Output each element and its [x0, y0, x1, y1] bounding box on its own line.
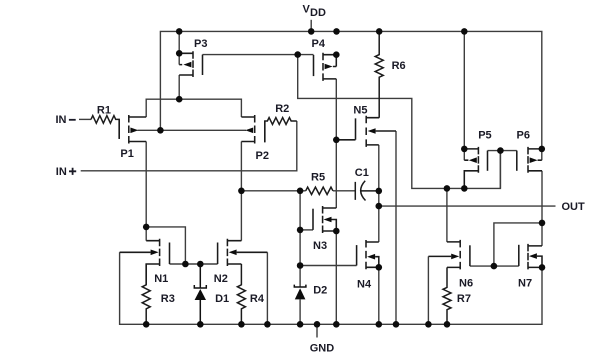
- junction dots top rail: [176, 28, 183, 35]
- transistor N2: [218, 239, 268, 266]
- junction dot N5 gate: [333, 137, 340, 144]
- wire IN+ to R2: [81, 121, 297, 171]
- diode D2 triangle: [295, 288, 306, 299]
- wire N4 source column: [378, 267, 380, 324]
- bulk arrow N1: [151, 250, 159, 256]
- wire P5 P6 gate link: [488, 150, 517, 152]
- svg-text:IN: IN: [56, 114, 67, 126]
- svg-text:GND: GND: [310, 343, 335, 354]
- svg-text:D2: D2: [313, 285, 327, 297]
- junction dot N6 N7 gate bus: [491, 263, 498, 270]
- wire P3 P4 gate line: [203, 54, 314, 56]
- bulk arrow P2: [245, 128, 253, 134]
- svg-text:R3: R3: [161, 293, 175, 305]
- transistor P5: [464, 147, 487, 189]
- transistor N3: [313, 206, 336, 233]
- wire P3 drain drop: [178, 75, 180, 99]
- wire N1 diode loop: [146, 227, 185, 264]
- transistor N7: [519, 244, 542, 270]
- junction dot P6 source: [539, 146, 546, 153]
- wire OUT line: [379, 205, 556, 207]
- transistor P2: [241, 115, 264, 144]
- bulk arrow P1: [130, 128, 138, 134]
- wire R5 line: [241, 190, 355, 192]
- transistor P6: [517, 147, 542, 173]
- resistor R3: [142, 264, 150, 324]
- svg-text:DD: DD: [310, 7, 326, 19]
- capacitor C1: [355, 181, 379, 201]
- junction dot N1 gate: [182, 261, 189, 268]
- transistor P1: [119, 115, 146, 144]
- label IN- minus sign: [69, 119, 76, 121]
- junction dot P5 drain bias: [461, 185, 468, 192]
- resistor R1: [91, 116, 119, 139]
- wire IN- lead: [79, 118, 91, 120]
- wire gate bias bus to P5 P6: [298, 55, 501, 189]
- wire P4 drain to N3 drain: [335, 79, 337, 208]
- wire P1 P2 source line: [146, 99, 241, 117]
- wire VDD rail: [160, 31, 541, 160]
- bulk arrow N2: [229, 250, 237, 256]
- bulk arrow P3: [183, 62, 191, 68]
- bulk arrow P4: [325, 64, 333, 70]
- junction dot N7 source: [539, 264, 546, 271]
- junction dots GND rail: [143, 321, 150, 328]
- svg-text:R1: R1: [97, 104, 111, 116]
- transistor N5: [336, 116, 396, 147]
- wire N6 bulk drop: [427, 256, 429, 324]
- wire N5 bulk drop: [395, 131, 397, 324]
- resistor R5: [306, 187, 333, 194]
- svg-text:P1: P1: [120, 148, 133, 160]
- svg-text:P6: P6: [517, 129, 530, 141]
- label IN+ plus sign: [69, 168, 76, 175]
- transistor P3: [179, 51, 202, 77]
- junction dot D1 top: [197, 261, 204, 268]
- bulk arrow N3: [324, 217, 332, 223]
- bulk arrow N6: [451, 254, 459, 260]
- junction dot tail node: [176, 96, 183, 103]
- junction dot P5 P6 gate: [497, 147, 504, 154]
- wire GND stub: [316, 324, 318, 337]
- svg-text:P3: P3: [194, 38, 207, 50]
- bulk arrow N5: [368, 128, 376, 134]
- svg-text:N3: N3: [313, 240, 327, 252]
- wire N1 N2 gate bus: [170, 263, 218, 265]
- svg-text:N4: N4: [357, 279, 372, 291]
- wire N5 source to N4 drain column: [378, 145, 380, 242]
- wire N3 gate line: [300, 229, 313, 231]
- junction dot P3 P4 gate: [294, 51, 301, 58]
- bulk arrow N7: [529, 253, 537, 259]
- wire N4 gate line: [300, 265, 357, 267]
- transistor N6: [428, 240, 470, 270]
- wire N3 source column: [335, 231, 337, 324]
- svg-text:R7: R7: [457, 293, 471, 305]
- junction dot P3 source: [176, 50, 183, 57]
- wire P3 source drop: [178, 31, 180, 64]
- junction dot N1 drain: [143, 224, 150, 231]
- junction dot C1 right: [376, 188, 383, 195]
- junction dot N4 source: [376, 264, 383, 271]
- svg-text:R4: R4: [250, 293, 265, 305]
- junction dot P5 source: [461, 146, 468, 153]
- bulk arrow P5: [469, 157, 477, 163]
- junction dot N6 drain bias: [444, 185, 451, 192]
- wire D2 column: [299, 191, 301, 324]
- wire P5 source drop: [463, 31, 465, 160]
- junction dot P6 drain gate bus: [539, 220, 546, 227]
- resistor R4: [237, 264, 245, 324]
- transistor P4: [314, 53, 337, 81]
- svg-text:OUT: OUT: [562, 201, 586, 213]
- wire GND rail: [120, 252, 542, 324]
- wire P1 drain to N1: [145, 142, 147, 241]
- svg-text:N7: N7: [518, 278, 532, 290]
- junction dot P4 source: [333, 51, 340, 58]
- junction dot N4 gate D2: [297, 262, 304, 269]
- junction dot N3 gate: [297, 227, 304, 234]
- svg-text:N6: N6: [459, 278, 473, 290]
- svg-text:P5: P5: [478, 129, 491, 141]
- svg-text:C1: C1: [355, 167, 369, 179]
- wire bulk bus P1 P2: [138, 129, 247, 131]
- bulk arrow P6: [530, 157, 538, 163]
- svg-text:N5: N5: [353, 104, 367, 116]
- diode D2: [294, 285, 306, 287]
- wire P2 drain to N2: [240, 142, 242, 241]
- wire P6 drain to N7 drain: [541, 171, 543, 246]
- diode D1: [194, 264, 206, 324]
- svg-text:N1: N1: [154, 273, 168, 285]
- wire N2 bulk drop: [266, 252, 268, 324]
- transistor N4: [357, 240, 379, 269]
- resistor R2: [265, 118, 297, 143]
- svg-text:R2: R2: [275, 103, 289, 115]
- resistor R7: [443, 267, 451, 324]
- wire N6 drain riser: [446, 188, 448, 242]
- svg-text:D1: D1: [215, 293, 229, 305]
- junction dot OUT: [376, 203, 383, 210]
- bulk arrow N4: [367, 254, 375, 260]
- diode D1 triangle: [195, 289, 206, 300]
- junction dot P2 N2 drain: [238, 188, 245, 195]
- svg-text:P4: P4: [312, 38, 326, 50]
- wire P5 P6 gate drop: [499, 151, 501, 189]
- transistor N1: [120, 239, 170, 285]
- svg-text:IN: IN: [56, 166, 67, 178]
- junction dot R5 D2: [297, 188, 304, 195]
- svg-text:P2: P2: [256, 150, 269, 162]
- junction dot bulk bus: [157, 127, 164, 134]
- junction dot N3 source: [333, 228, 340, 235]
- svg-text:N2: N2: [214, 273, 228, 285]
- svg-text:R5: R5: [311, 172, 325, 184]
- wire VDD stub: [310, 20, 312, 32]
- wire N6 N7 gate bus: [470, 223, 542, 266]
- svg-text:R6: R6: [392, 60, 406, 72]
- resistor R6: [375, 31, 383, 117]
